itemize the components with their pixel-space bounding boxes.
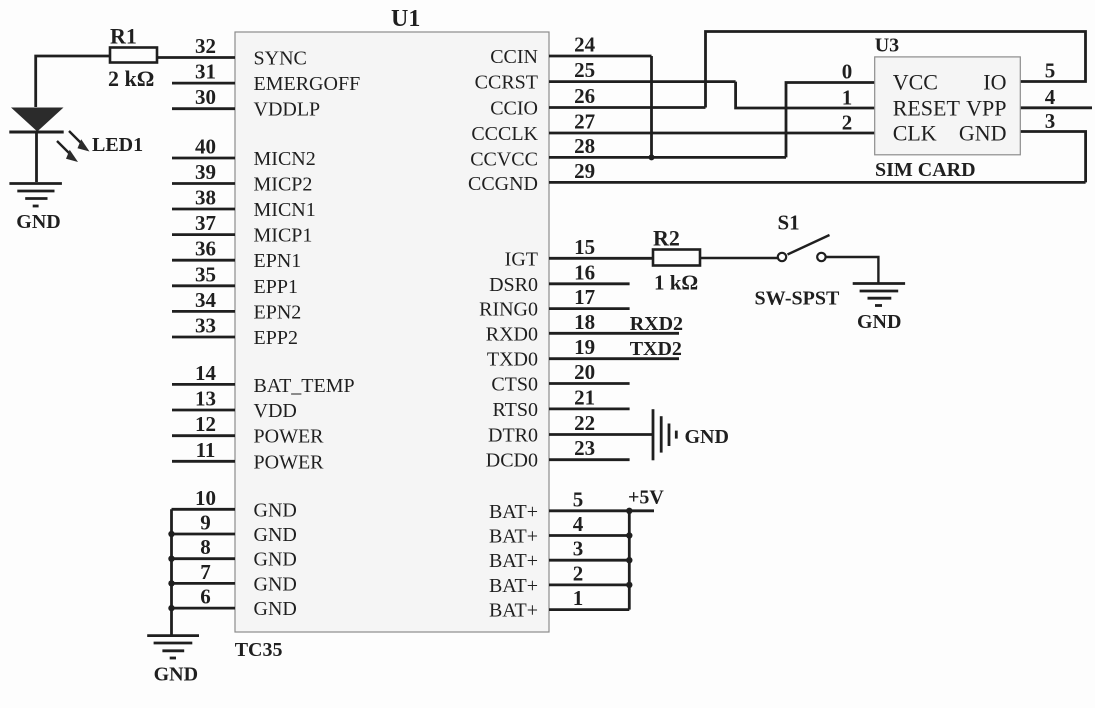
pin 11 POWER	[172, 438, 324, 474]
wire CCIN down	[650, 56, 653, 157]
U3 pin 0 VCC	[842, 60, 938, 95]
ground (U1 GND pins)	[147, 636, 199, 658]
svg-text:GND: GND	[959, 121, 1007, 146]
pin 5 BAT+	[489, 487, 654, 523]
svg-text:TXD0: TXD0	[487, 349, 538, 371]
svg-text:24: 24	[574, 33, 596, 57]
svg-text:CLK: CLK	[893, 121, 937, 146]
svg-text:GND: GND	[154, 664, 198, 686]
U3 pin 2 CLK	[842, 111, 937, 146]
svg-text:EPN2: EPN2	[254, 301, 302, 323]
pin 36 EPN1	[172, 237, 301, 273]
ground (LED)	[9, 184, 62, 207]
svg-text:GND: GND	[254, 524, 297, 546]
pin 22 DTR0	[488, 411, 653, 447]
resistor R2	[653, 250, 700, 266]
IC U1 TC35 body	[235, 32, 549, 632]
U3 pin 4 VPP	[966, 85, 1056, 121]
svg-text:CCGND: CCGND	[468, 173, 538, 195]
svg-text:TC35: TC35	[235, 639, 283, 661]
pin 31 EMERGOFF	[172, 60, 360, 96]
pin 1 BAT+	[489, 586, 629, 622]
pin 6 GND	[172, 585, 297, 621]
pin 10 GND	[172, 486, 297, 522]
svg-text:19: 19	[574, 335, 595, 359]
svg-text:CCRST: CCRST	[475, 72, 538, 94]
svg-text:GND: GND	[685, 426, 729, 448]
svg-text:7: 7	[200, 560, 211, 584]
svg-text:21: 21	[574, 385, 595, 409]
pin 7 GND	[172, 560, 297, 596]
svg-text:GND: GND	[857, 311, 901, 333]
junction BAT+ pin3	[626, 557, 632, 563]
pin 26 CCIO	[490, 84, 705, 120]
svg-text:10: 10	[195, 486, 216, 510]
wire CCIO up over to SIM IO	[706, 32, 1086, 108]
svg-text:MICP1: MICP1	[254, 225, 313, 247]
pin 2 BAT+	[489, 561, 629, 597]
svg-text:CCIN: CCIN	[490, 46, 538, 68]
pin 12 POWER	[172, 412, 324, 448]
svg-text:EPN1: EPN1	[254, 250, 302, 272]
svg-text:18: 18	[574, 310, 595, 334]
svg-text:40: 40	[195, 135, 216, 159]
svg-text:BAT+: BAT+	[489, 501, 538, 523]
junction BAT+ pin5	[626, 508, 632, 514]
svg-text:11: 11	[196, 438, 216, 462]
svg-text:RXD0: RXD0	[486, 323, 538, 345]
svg-text:BAT+: BAT+	[489, 550, 538, 572]
svg-text:16: 16	[574, 260, 595, 284]
svg-text:EMERGOFF: EMERGOFF	[254, 73, 361, 95]
wire R1 left to LED anode	[36, 56, 110, 107]
svg-text:VPP: VPP	[966, 96, 1006, 121]
svg-text:20: 20	[574, 360, 595, 384]
svg-text:29: 29	[574, 159, 595, 183]
wire SIM VPP pin 4	[1020, 106, 1092, 109]
ground (DTR0, sideways)	[653, 409, 676, 460]
svg-text:0: 0	[842, 60, 853, 84]
svg-text:GND: GND	[254, 573, 297, 595]
svg-text:SW-SPST: SW-SPST	[755, 288, 841, 310]
pin 8 GND	[172, 535, 297, 571]
svg-text:1 kΩ: 1 kΩ	[654, 271, 698, 295]
svg-text:POWER: POWER	[254, 426, 325, 448]
svg-text:35: 35	[195, 262, 216, 286]
svg-text:BAT_TEMP: BAT_TEMP	[254, 375, 355, 397]
pin 34 EPN2	[172, 288, 301, 324]
U3 pin 3 GND	[959, 109, 1055, 146]
svg-text:36: 36	[195, 237, 216, 261]
svg-text:RXD2: RXD2	[630, 313, 683, 335]
svg-text:+5V: +5V	[628, 487, 664, 509]
svg-text:2: 2	[573, 561, 584, 585]
svg-text:VDD: VDD	[254, 400, 297, 422]
svg-text:34: 34	[195, 288, 217, 312]
resistor R1	[110, 48, 157, 63]
svg-text:DCD0: DCD0	[486, 450, 538, 472]
pin 40 MICN2	[172, 135, 316, 171]
svg-text:GND: GND	[16, 211, 60, 233]
pin 14 BAT_TEMP	[172, 361, 355, 397]
svg-text:8: 8	[200, 535, 211, 559]
svg-text:U3: U3	[875, 35, 899, 57]
svg-text:EPP1: EPP1	[254, 276, 298, 298]
svg-text:12: 12	[195, 412, 216, 436]
svg-text:CCVCC: CCVCC	[470, 148, 538, 170]
svg-text:R2: R2	[653, 226, 680, 251]
pin 21 RTS0	[493, 385, 630, 421]
pin 20 CTS0	[491, 360, 629, 396]
svg-text:BAT+: BAT+	[489, 575, 538, 597]
wire SIM GND pin 3 to CCGND	[1020, 132, 1085, 183]
svg-text:4: 4	[573, 512, 584, 536]
svg-text:38: 38	[195, 186, 216, 210]
svg-text:23: 23	[574, 436, 595, 460]
pin 17 RING0	[479, 285, 629, 321]
svg-text:SIM CARD: SIM CARD	[875, 159, 976, 181]
svg-text:CCIO: CCIO	[490, 98, 538, 120]
pin 30 VDDLP	[172, 85, 320, 121]
svg-text:U1: U1	[391, 6, 420, 32]
svg-text:VCC: VCC	[893, 70, 938, 95]
svg-text:5: 5	[573, 487, 584, 511]
svg-text:17: 17	[574, 285, 595, 309]
svg-text:1: 1	[842, 86, 853, 110]
pin 15 IGT	[505, 235, 653, 270]
wire CCRST to SIM RESET	[736, 82, 875, 108]
pin 39 MICP2	[172, 160, 312, 196]
pin 24 CCIN	[490, 33, 651, 69]
pin 3 BAT+	[489, 537, 629, 573]
pin 29 CCGND	[468, 159, 1086, 195]
svg-text:GND: GND	[254, 499, 297, 521]
svg-text:VDDLP: VDDLP	[254, 99, 321, 121]
svg-text:15: 15	[574, 235, 595, 259]
svg-text:GND: GND	[254, 598, 297, 620]
svg-text:R1: R1	[110, 24, 137, 49]
svg-text:28: 28	[574, 134, 595, 158]
svg-text:RTS0: RTS0	[493, 399, 538, 421]
pin 35 EPP1	[172, 262, 298, 298]
svg-text:CCCLK: CCCLK	[471, 123, 538, 145]
svg-text:5: 5	[1045, 59, 1056, 83]
pin 9 GND	[172, 511, 297, 547]
pin 27 CCCLK	[471, 110, 874, 146]
svg-text:EPP2: EPP2	[254, 327, 298, 349]
svg-text:S1: S1	[778, 211, 800, 235]
pin 32 SYNC	[157, 34, 307, 70]
svg-text:13: 13	[195, 387, 216, 411]
LED LED1	[9, 108, 89, 163]
svg-text:CTS0: CTS0	[491, 374, 538, 396]
pin 23 DCD0	[486, 436, 630, 472]
svg-text:LED1: LED1	[92, 134, 143, 156]
junction BAT+ pin4	[626, 532, 632, 538]
pin 13 VDD	[172, 387, 297, 423]
svg-text:37: 37	[195, 211, 216, 235]
svg-text:GND: GND	[254, 549, 297, 571]
wire CCVCC up to SIM VCC	[786, 83, 875, 158]
svg-text:2: 2	[842, 111, 853, 135]
ground (switch)	[853, 284, 905, 306]
svg-text:IO: IO	[983, 70, 1006, 95]
pin 37 MICP1	[172, 211, 312, 247]
pin 38 MICN1	[172, 186, 316, 222]
junction GND pin7	[168, 580, 174, 586]
svg-text:39: 39	[195, 160, 216, 184]
junction CCIN/CCVCC	[649, 154, 655, 160]
svg-text:SYNC: SYNC	[254, 48, 307, 70]
svg-text:9: 9	[200, 511, 211, 535]
svg-text:2 kΩ: 2 kΩ	[108, 66, 154, 91]
svg-text:1: 1	[573, 586, 584, 610]
svg-text:27: 27	[574, 110, 595, 134]
svg-text:33: 33	[195, 314, 216, 338]
svg-text:BAT+: BAT+	[489, 600, 538, 622]
wire BAT+ bus	[628, 511, 631, 610]
svg-text:14: 14	[195, 361, 217, 385]
U3 pin 1 RESET	[842, 86, 961, 121]
svg-text:4: 4	[1045, 85, 1056, 109]
svg-text:32: 32	[195, 34, 216, 58]
svg-text:6: 6	[200, 585, 211, 609]
svg-text:RESET: RESET	[893, 96, 961, 121]
svg-text:DSR0: DSR0	[489, 274, 538, 296]
wire switch to ground	[826, 257, 879, 283]
svg-text:25: 25	[574, 58, 595, 82]
svg-text:22: 22	[574, 411, 595, 435]
svg-text:30: 30	[195, 85, 216, 109]
svg-text:MICN2: MICN2	[254, 148, 316, 170]
svg-text:3: 3	[1045, 109, 1056, 133]
switch S1	[778, 235, 830, 261]
junction GND pin9	[168, 531, 174, 537]
svg-text:31: 31	[195, 60, 216, 84]
wire GND bus (left)	[170, 509, 173, 635]
pin 33 EPP2	[172, 314, 298, 350]
junction GND pin8	[168, 556, 174, 562]
pin 4 BAT+	[489, 512, 629, 548]
U3 pin 5 IO	[983, 59, 1055, 95]
pin 16 DSR0	[489, 260, 630, 296]
svg-text:TXD2: TXD2	[630, 338, 682, 360]
pin 28 CCVCC	[470, 134, 786, 170]
pin 25 CCRST	[475, 58, 736, 94]
svg-text:DTR0: DTR0	[488, 425, 538, 447]
junction BAT+ pin2	[626, 582, 632, 588]
pin 19 TXD0 / net TXD2	[487, 335, 682, 371]
svg-text:MICP2: MICP2	[254, 174, 313, 196]
svg-text:MICN1: MICN1	[254, 199, 316, 221]
junction GND pin6	[168, 605, 174, 611]
IC U3 SIM card body	[875, 57, 1021, 155]
wire LED cathode to ground	[35, 132, 38, 182]
pin 18 RXD0 / net RXD2	[486, 310, 683, 346]
svg-text:RING0: RING0	[479, 299, 538, 321]
svg-text:3: 3	[573, 537, 584, 561]
svg-text:POWER: POWER	[254, 451, 325, 473]
wire R2 to switch	[700, 257, 778, 259]
svg-text:26: 26	[574, 84, 595, 108]
svg-text:BAT+: BAT+	[489, 526, 538, 548]
svg-text:IGT: IGT	[505, 248, 538, 270]
